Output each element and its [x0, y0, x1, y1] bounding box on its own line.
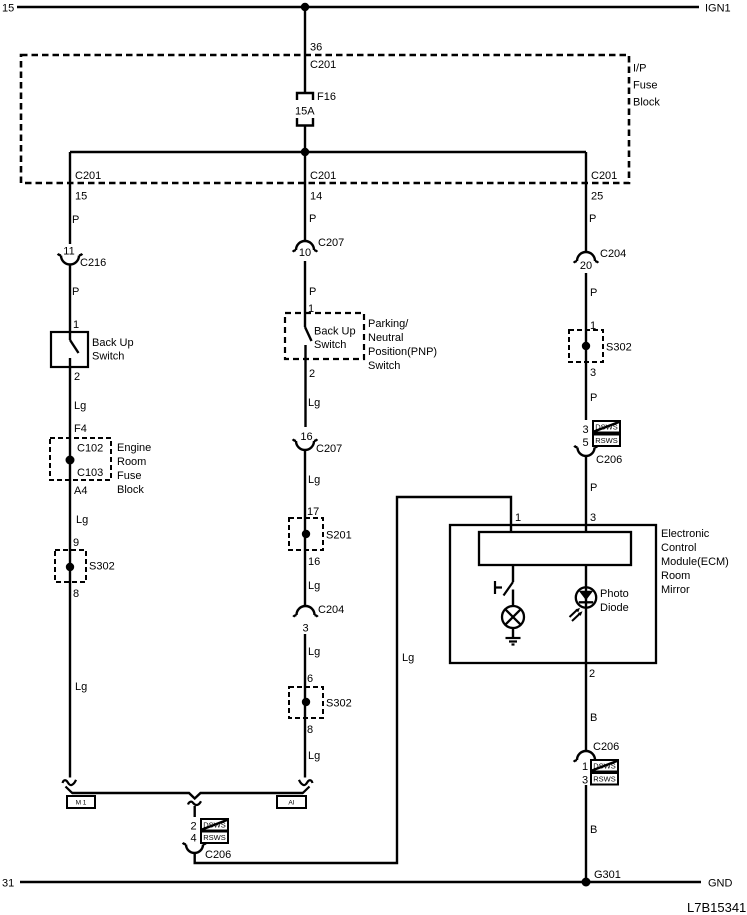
svg-text:2: 2 [589, 668, 595, 680]
tag box RSWS [591, 773, 618, 785]
wire stub to C206 [193, 806, 195, 817]
ground symbol [506, 638, 521, 645]
wire C204 to C206 [585, 273, 587, 420]
connector C207 pin16 [293, 439, 317, 450]
wire break squiggle middle [299, 780, 313, 785]
svg-text:1: 1 [582, 761, 588, 773]
wire PNP switch to C207 [304, 345, 306, 427]
svg-text:Lg: Lg [308, 750, 320, 762]
I/P fuse block dashed box [21, 55, 629, 183]
svg-text:Lg: Lg [402, 652, 414, 664]
svg-text:RSWS: RSWS [593, 775, 616, 784]
svg-text:C201: C201 [310, 59, 336, 71]
svg-text:Neutral: Neutral [368, 332, 403, 344]
svg-text:Back Up: Back Up [92, 337, 134, 349]
svg-text:Position(PNP): Position(PNP) [368, 346, 437, 358]
svg-text:Back Up: Back Up [314, 326, 356, 338]
ECM room mirror box [450, 525, 656, 663]
connector C216 [58, 254, 82, 265]
svg-text:C201: C201 [75, 170, 101, 182]
svg-text:8: 8 [73, 588, 79, 600]
connector C207 pin10 [293, 241, 317, 252]
ECM inner block [479, 532, 631, 565]
svg-text:2: 2 [190, 821, 196, 833]
svg-text:3: 3 [590, 367, 596, 379]
wire right branch upper [585, 152, 587, 252]
svg-text:Fuse: Fuse [633, 80, 657, 92]
svg-text:G301: G301 [594, 869, 621, 881]
svg-text:P: P [72, 286, 79, 298]
wire middle branch upper [304, 152, 306, 241]
svg-text:8: 8 [307, 724, 313, 736]
wire lamp to ground [512, 628, 514, 638]
svg-text:1: 1 [73, 319, 79, 331]
svg-text:P: P [590, 287, 597, 299]
wire switch to lamp [512, 590, 514, 607]
svg-text:P: P [309, 213, 316, 225]
svg-text:5: 5 [582, 437, 588, 449]
svg-text:Module(ECM): Module(ECM) [661, 556, 729, 568]
splice S302 dashed box right [569, 330, 603, 362]
net IGN1 top rail [17, 6, 699, 9]
splice dot S201 [302, 530, 310, 538]
svg-text:P: P [590, 392, 597, 404]
svg-text:C103: C103 [77, 467, 103, 479]
svg-text:36: 36 [310, 42, 322, 54]
splice dot S302 [66, 563, 74, 571]
junction dot below fuse [301, 148, 309, 156]
merge squiggle [188, 801, 201, 805]
svg-text:C207: C207 [318, 237, 344, 249]
splice S302 dashed box middle [289, 687, 323, 718]
svg-text:2: 2 [74, 371, 80, 383]
tag box DSWS (crossed) [593, 421, 620, 433]
connector C206 pin1/3 [574, 751, 598, 762]
wire C206 to G301 [585, 785, 587, 882]
wire switch to bottom [69, 358, 71, 778]
svg-text:S302: S302 [606, 342, 632, 354]
wire photodiode branch [585, 565, 587, 751]
fuse F16 top bracket [297, 93, 313, 100]
svg-text:15: 15 [75, 191, 87, 203]
wire C206 to ECM pin1 [195, 497, 511, 863]
svg-text:C216: C216 [80, 257, 106, 269]
svg-text:C206: C206 [593, 741, 619, 753]
svg-text:Room: Room [661, 570, 690, 582]
svg-text:C206: C206 [205, 849, 231, 861]
svg-text:10: 10 [299, 247, 311, 259]
svg-text:F4: F4 [74, 423, 87, 435]
svg-text:IGN1: IGN1 [705, 3, 731, 15]
splice S201 dashed box [289, 518, 323, 550]
svg-text:L7B15341: L7B15341 [687, 900, 746, 915]
svg-text:1: 1 [515, 512, 521, 524]
splice dot S302 [302, 698, 310, 706]
wire C216 to switch [69, 265, 71, 341]
svg-text:2: 2 [309, 368, 315, 380]
svg-text:P: P [72, 214, 79, 226]
svg-text:RSWS: RSWS [595, 436, 618, 445]
splice S302 dashed box left [55, 550, 86, 582]
svg-text:20: 20 [580, 260, 592, 272]
engine room fuse block dashed box C102/C103 [50, 438, 111, 480]
svg-text:C102: C102 [77, 443, 103, 455]
net GND bottom rail [20, 881, 701, 884]
svg-text:Lg: Lg [308, 474, 320, 486]
svg-text:4: 4 [190, 833, 196, 845]
svg-text:B: B [590, 712, 597, 724]
back up switch box [51, 332, 88, 367]
junction dot top [301, 3, 309, 11]
svg-text:Switch: Switch [314, 339, 346, 351]
svg-text:Room: Room [117, 456, 146, 468]
wire fuse to junction [304, 126, 306, 153]
svg-text:AI: AI [288, 800, 294, 807]
wire C207 to PNP switch [304, 261, 306, 327]
lamp (circle with X) [502, 606, 524, 628]
svg-text:B: B [590, 824, 597, 836]
svg-text:16: 16 [300, 431, 312, 443]
svg-text:11: 11 [63, 246, 74, 258]
svg-text:Lg: Lg [308, 580, 320, 592]
svg-text:F16: F16 [317, 91, 336, 103]
svg-text:Parking/: Parking/ [368, 318, 409, 330]
svg-text:P: P [590, 482, 597, 494]
svg-text:C204: C204 [600, 248, 626, 260]
svg-text:GND: GND [708, 878, 733, 890]
svg-text:C204: C204 [318, 604, 344, 616]
PNP switch blade [305, 327, 312, 341]
svg-text:14: 14 [310, 191, 322, 203]
svg-text:6: 6 [307, 673, 313, 685]
tag box M1 [67, 796, 95, 808]
svg-text:Switch: Switch [92, 351, 124, 363]
svg-text:Block: Block [117, 484, 144, 496]
svg-text:A4: A4 [74, 485, 87, 497]
svg-text:Engine: Engine [117, 442, 151, 454]
ground junction dot G301 [582, 878, 591, 887]
svg-text:3: 3 [302, 623, 308, 635]
svg-text:Lg: Lg [75, 681, 87, 693]
wire lamp branch [512, 565, 514, 582]
svg-text:25: 25 [591, 191, 603, 203]
wire distribution rail [70, 151, 586, 153]
svg-text:3: 3 [582, 775, 588, 787]
wire joining run with merge notch [72, 793, 303, 799]
tag box DSWS (crossed) [201, 819, 228, 831]
svg-text:C201: C201 [591, 170, 617, 182]
svg-text:C206: C206 [596, 454, 622, 466]
svg-text:RSWS: RSWS [203, 833, 226, 842]
wire C204 to bottom [304, 634, 306, 778]
connector C204 pin20 [574, 252, 598, 263]
svg-text:17: 17 [307, 506, 319, 518]
wire elbow middle [303, 787, 310, 794]
svg-text:C207: C207 [316, 443, 342, 455]
svg-text:Lg: Lg [74, 400, 86, 412]
svg-text:Lg: Lg [76, 514, 88, 526]
svg-text:Lg: Lg [308, 397, 320, 409]
svg-text:Block: Block [633, 97, 660, 109]
svg-text:Electronic: Electronic [661, 528, 710, 540]
connector C206 pin2/4 [183, 843, 206, 853]
svg-text:C201: C201 [310, 170, 336, 182]
svg-text:31: 31 [2, 878, 14, 890]
svg-text:Diode: Diode [600, 602, 629, 614]
wire C206 to ECM [585, 456, 587, 532]
svg-text:Control: Control [661, 542, 696, 554]
wire C207 to C204 [304, 450, 306, 606]
svg-text:S302: S302 [89, 561, 115, 573]
svg-text:Mirror: Mirror [661, 584, 690, 596]
tag box AI [277, 796, 306, 808]
svg-text:I/P: I/P [633, 63, 646, 75]
tag box RSWS [201, 832, 228, 844]
svg-text:16: 16 [308, 556, 320, 568]
splice dot C102/C103 [66, 456, 75, 465]
svg-text:P: P [309, 286, 316, 298]
wire left branch upper [69, 152, 71, 244]
PNP switch dashed box [285, 313, 364, 359]
svg-text:9: 9 [73, 537, 79, 549]
photodiode light arrows [570, 608, 583, 621]
photo diode D1 [576, 587, 596, 607]
tag box RSWS [593, 435, 620, 447]
connector C206 pin3/5 [574, 446, 597, 456]
switch contact bar [495, 581, 502, 594]
wire break squiggle left [63, 780, 77, 785]
wire elbow left [66, 787, 73, 794]
svg-text:Lg: Lg [308, 646, 320, 658]
svg-text:Fuse: Fuse [117, 470, 141, 482]
splice dot S302 [582, 342, 590, 350]
switch blade [504, 582, 514, 596]
svg-text:M 1: M 1 [76, 800, 87, 807]
svg-text:S201: S201 [326, 530, 352, 542]
tag box DSWS (crossed) [591, 760, 618, 772]
svg-text:3: 3 [590, 512, 596, 524]
svg-text:P: P [589, 213, 596, 225]
connector C204 pin3 [293, 606, 317, 617]
back up switch blade [70, 340, 79, 353]
svg-text:15A: 15A [295, 106, 315, 118]
wire from IGN1 rail to fuse [304, 7, 306, 93]
fuse F16 bottom bracket [297, 118, 313, 126]
svg-text:3: 3 [582, 424, 588, 436]
svg-text:S302: S302 [326, 698, 352, 710]
svg-text:15: 15 [2, 3, 14, 15]
svg-text:Photo: Photo [600, 588, 629, 600]
svg-text:Switch: Switch [368, 360, 400, 372]
